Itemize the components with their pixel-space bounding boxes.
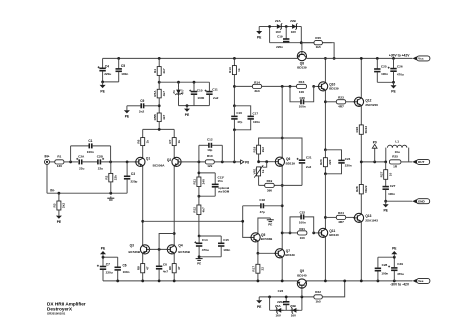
transistor Q1 [135,157,151,167]
svg-text:1k5: 1k5 [316,299,321,303]
node C25 rail [376,57,379,60]
svg-text:R16: R16 [299,80,305,84]
wire R14 to R16 [262,85,297,87]
trimmer R18 [252,145,265,154]
zener Z2B [290,19,299,34]
node Q6 top branch [281,137,284,140]
node P9 tap [373,161,376,164]
svg-text:2k2: 2k2 [261,147,265,152]
svg-text:470u: 470u [202,248,209,252]
capacitor C7 [97,257,113,281]
node VR1 wiper tap [265,160,268,163]
svg-text:47: 47 [145,266,149,270]
capacitor C23 [277,289,289,310]
wire to OUT tag [401,161,412,163]
node C19 top [285,25,288,28]
node C6 rail [116,280,119,283]
svg-text:2k2: 2k2 [62,203,66,208]
node R15 rail [333,57,336,60]
node mirror tie [173,232,176,235]
ground PE under zener network [184,106,190,117]
svg-text:BC546B: BC546B [128,250,140,254]
capacitor C27 [383,184,396,201]
wire R12 to C14 [198,215,200,236]
svg-text:R12: R12 [193,207,197,213]
svg-text:C2A: C2A [78,155,85,159]
svg-text:PE: PE [268,223,272,227]
capacitor C13 branch [199,173,219,196]
capacitor C15 branch [199,236,230,257]
svg-text:22u: 22u [79,166,84,170]
svg-text:via BOM: via BOM [218,189,230,193]
transistor Q5 [250,232,273,242]
svg-text:Q1: Q1 [146,157,150,161]
resistor R5A [153,89,166,98]
svg-text:2u2: 2u2 [306,165,312,169]
node C26 bottom [392,81,395,84]
node R9 rail [173,280,176,283]
svg-text:Z3B: Z3B [290,304,297,308]
svg-text:C2B: C2B [97,155,104,159]
svg-text:Q13: Q13 [365,214,371,218]
capacitor C5 [116,58,129,82]
ground PE under R3 [56,215,62,224]
svg-text:R20: R20 [319,159,323,165]
wire IN+ down to IN- line [46,164,48,193]
wire zener network top [159,81,209,83]
svg-text:BC546B: BC546B [261,237,273,241]
node R20 top [324,148,327,151]
svg-text:16V: 16V [276,30,281,34]
capacitor C2B [97,155,104,171]
capacitor C12 branch [199,138,222,162]
wire Q2 collector down [173,167,175,245]
svg-text:BD139: BD139 [286,161,296,165]
node rail-R13 junction [233,57,236,60]
resistor R11 [193,177,206,187]
wire R16 to Q10 base [314,85,320,87]
wire Q7 base line [258,252,275,254]
capacitor C18 branch [243,198,283,214]
svg-text:C12: C12 [207,138,213,142]
trimmer VR1 [252,165,265,177]
node C22 left [289,232,292,235]
node C23 top [285,296,288,299]
node C16 top [233,104,236,107]
wire Q7 emitter to rail [281,258,283,281]
svg-text:C10: C10 [197,88,203,92]
svg-text:1k: 1k [237,68,241,72]
node Z3 left riser [268,296,271,299]
resistor R7 [168,129,181,145]
svg-text:R19: R19 [267,179,273,183]
svg-text:R28: R28 [355,186,359,192]
svg-text:100: 100 [300,236,305,240]
node VAS column top [281,85,284,88]
svg-text:R13: R13 [228,67,232,73]
svg-text:BD140: BD140 [297,273,307,277]
svg-text:BC556A: BC556A [153,163,166,167]
svg-text:BD139: BD139 [297,66,307,70]
wire R10 to P8 [214,161,240,163]
svg-text:16V: 16V [291,30,296,34]
svg-text:10: 10 [388,173,392,177]
resistor R1 [55,154,64,168]
svg-text:IN-: IN- [50,189,54,193]
capacitor C22 branch [290,211,314,233]
node C28 rail [377,280,380,283]
capacitor C26 [388,58,404,82]
node Z1 top [177,81,180,84]
resistor R9 [168,254,181,281]
svg-text:220: 220 [328,159,332,164]
svg-text:-30V to -42V: -30V to -42V [390,283,410,287]
svg-text:R18: R18 [252,146,256,152]
connector Vcc [413,56,430,61]
resistor R21 [298,227,307,240]
ground PE under C26 [391,82,397,93]
node R27 top [384,161,387,164]
svg-text:C14: C14 [202,238,208,242]
svg-text:BC546B: BC546B [178,250,190,254]
resistor R28 [355,162,368,213]
node R5-C9 junction [158,104,161,107]
resistor R24 [325,211,354,224]
svg-text:1k: 1k [261,169,265,173]
wire R21 line left [282,232,297,234]
svg-text:C8: C8 [163,262,167,266]
node C1 right junction [109,161,112,164]
node R3 top [58,192,61,195]
svg-text:BD139: BD139 [285,253,295,257]
svg-text:47p: 47p [260,210,265,214]
svg-text:4k7: 4k7 [162,114,166,119]
capacitor C2A [76,155,85,171]
node VAS feed tap [141,220,144,223]
resistor R8 [137,254,150,281]
capacitor C14 [194,236,209,257]
node C8 rail [158,280,161,283]
ground PE under C4 [100,82,106,93]
svg-text:C4: C4 [105,64,109,68]
svg-text:C26: C26 [397,64,403,68]
svg-text:C6: C6 [123,263,127,267]
wire R4 to R5A [158,75,160,89]
resistor R22 [314,290,322,304]
wire R15 to rail [322,43,334,59]
wire C2A to C2B [82,161,98,163]
wire C16 column to fb line [233,130,235,162]
wire C28-C29 tops [378,256,394,258]
node R4-R5A junction [158,81,161,84]
svg-text:C19: C19 [277,35,283,39]
capacitor C11 [205,82,219,105]
svg-text:R3: R3 [53,203,57,207]
svg-text:22u: 22u [98,166,103,170]
svg-text:220u: 220u [104,72,111,76]
svg-text:240: 240 [202,179,206,184]
svg-text:C29: C29 [397,262,403,266]
wire Q2 base to network [179,161,205,163]
resistor R3 [53,193,66,215]
wire mirror tie route [159,234,174,250]
node R21 left [281,232,284,235]
svg-text:2SA1943: 2SA1943 [365,218,378,222]
svg-text:1k: 1k [177,140,181,144]
node C18 right [281,204,284,207]
svg-text:16V: 16V [291,314,296,318]
wire C6-C7 tops [103,256,118,258]
svg-text:R1: R1 [57,154,61,158]
node zener net bottom [186,104,189,107]
ground PE under C27 [383,201,389,212]
wire C18 to Q5 base drop [242,206,244,222]
wire C21 branch [301,164,303,186]
svg-text:2n2: 2n2 [139,109,145,113]
ground bar under R2 [107,196,114,200]
svg-text:C24: C24 [345,157,351,161]
resistor R16 [297,80,307,94]
resistor R12 [193,205,206,215]
wire R18 to node [258,154,260,162]
svg-text:1000: 1000 [197,96,204,100]
svg-text:Z1: Z1 [172,90,176,94]
node C14 top junction [198,235,201,238]
wire Q11 collector to rail [324,238,326,281]
resistor R10 [205,154,214,168]
resistor R2 [105,162,118,193]
wire C19 left riser [269,27,271,43]
node mirror base center [158,248,161,251]
ground PE above C29 [391,247,397,258]
svg-text:P9: P9 [373,140,377,144]
svg-text:R6: R6 [137,139,141,143]
svg-text:C1: C1 [88,139,92,143]
svg-text:Vee: Vee [418,279,424,283]
svg-text:R9: R9 [168,266,172,270]
capacitor C17 branch [234,106,260,130]
capacitor C20 branch [290,86,314,108]
wire R1 to C2A [64,161,78,163]
wire zener network bottom [179,105,210,107]
svg-text:R21: R21 [299,227,305,231]
resistor R6 [137,129,150,145]
wire R6 to Q1 [142,146,144,157]
svg-text:4k7: 4k7 [162,68,166,73]
transistor Q12 [353,97,378,107]
wire Z2A-Z2B [284,26,290,28]
wire R7 to Q2 [173,146,175,157]
svg-text:100n: 100n [381,72,388,76]
svg-text:C28: C28 [382,263,388,267]
capacitor C25 [374,58,388,82]
svg-text:R22: R22 [315,290,321,294]
svg-text:100n: 100n [381,271,388,275]
svg-text:220u: 220u [277,300,284,304]
wire VAS column upper [281,86,283,248]
wire Z3B right riser [301,297,303,310]
svg-text:0R22: 0R22 [364,185,368,193]
node R17 rail [257,280,260,283]
zener Z2A [275,19,284,34]
resistor R13 [228,58,241,105]
capacitor C21 [297,155,312,169]
svg-text:Z2B: Z2B [290,19,297,23]
wire Q12 collector to rail [360,58,362,96]
svg-text:R8: R8 [137,266,141,270]
transistor Q7 [274,248,295,258]
wire Q13 collector to rail [360,223,362,281]
wire R22 to rail [322,281,344,297]
svg-text:Q4: Q4 [178,244,182,248]
capacitor C29 [388,257,404,281]
transistor Q9 (series regulator) [297,269,307,289]
capacitor C24 branch [325,150,351,174]
capacitor C1 bypass branch [71,139,111,162]
node R20 bottom [324,172,327,175]
resistor R27 [380,162,393,186]
svg-text:47: 47 [177,266,181,270]
svg-text:R5B: R5B [153,113,157,120]
node Q7 rail [281,280,284,283]
wire +V rail right section [307,57,413,59]
svg-text:C7: C7 [106,263,110,267]
svg-text:C23: C23 [278,289,284,293]
wire Q5 emitter to ground [258,218,270,232]
ground PE left of lower line [256,297,262,309]
label -30V to -42V [390,283,410,287]
wire C25-C26 bottoms [377,81,393,83]
svg-text:R10: R10 [207,154,213,158]
capacitor C4 [98,58,112,82]
wire Q10 collector to rail [324,58,326,81]
svg-text:C9: C9 [140,99,144,103]
transistor Q8 (series regulator) [297,51,307,70]
wire tail tee [143,128,175,130]
svg-text:Q2: Q2 [167,158,171,162]
node Z2A left [268,25,271,28]
svg-text:R7: R7 [168,139,172,143]
svg-text:47p: 47p [237,120,242,124]
transistor Q6 [274,157,295,167]
wire Z2B to corner [299,27,302,43]
wire zener bottom line [270,309,302,311]
wire Q11 emitter up [324,174,326,229]
wire Q11 base line [314,232,320,234]
wire -V rail [103,280,413,282]
capacitor C10 [189,82,204,105]
node tail center [158,128,161,131]
node R24 tap [324,216,327,219]
svg-text:Z3A: Z3A [275,304,282,308]
svg-text:C27: C27 [390,184,396,188]
wire Q5 collector down [257,242,259,253]
wire lower bias line [259,296,314,298]
svg-text:R23: R23 [338,96,344,100]
test point P9 [372,140,377,162]
svg-text:IN+: IN+ [44,154,49,158]
svg-text:4R7: 4R7 [338,104,344,108]
node C27 bottom [384,200,387,203]
node Q5 base tap [241,220,244,223]
svg-text:100n: 100n [253,120,260,124]
svg-text:470u: 470u [397,272,404,276]
wire Q9 base [301,289,303,297]
node R13-R14 junction [233,85,236,88]
node Q6 bottom branch [281,184,284,187]
node Q11 rail [324,280,327,283]
node C29 top [393,256,396,259]
node Q5-Q7-R17 [257,252,260,255]
node C20 left [289,85,292,88]
node C26 rail [392,57,395,60]
wire Z3 left riser [269,297,271,310]
resistor R25 [389,154,401,168]
resistor R23 [325,96,354,109]
node R23 tap [324,100,327,103]
svg-text:GND: GND [418,200,426,204]
node C14 bottom [198,255,201,258]
svg-text:100n: 100n [299,105,306,109]
node Q12 rail [360,57,363,60]
wire to GND tag [386,200,413,202]
svg-text:C20: C20 [299,96,305,100]
node C10 top [193,81,196,84]
svg-text:100n: 100n [87,150,94,154]
svg-text:470u: 470u [397,72,404,76]
wire C14-C15 bottoms [199,256,221,258]
capacitor C3 [124,162,138,193]
svg-text:BD140: BD140 [329,233,339,237]
ground bar under C14 [196,257,203,266]
wire VR1 wiper route [263,162,267,168]
ground PE above C7 [100,247,106,258]
resistor R19 [265,179,275,193]
svg-text:12k: 12k [207,164,212,168]
svg-text:220p: 220p [131,179,138,183]
zener Z3A [275,304,284,318]
node R22 rail [343,280,346,283]
svg-text:R4: R4 [153,69,157,73]
svg-text:4R7: 4R7 [338,220,344,224]
wire C4-C5 bottoms [103,81,119,83]
node Q10 rail [324,57,327,60]
svg-text:C21: C21 [306,155,312,159]
wire Q8 base [301,43,303,50]
svg-text:100: 100 [299,90,304,94]
capacitor C16 [231,106,242,130]
node R11 top [198,161,201,164]
node R21 right [312,232,315,235]
svg-text:Z2A: Z2A [275,19,282,23]
wire R13 to R14 [234,85,252,87]
zener Z3B [290,304,299,318]
wire C19 lower line [270,42,332,44]
svg-text:C22: C22 [300,211,306,215]
svg-text:100n: 100n [123,270,130,274]
resistor R5B [153,113,166,122]
svg-text:C15: C15 [223,238,229,242]
resistor R17 [252,253,265,281]
svg-text:R26: R26 [355,126,359,132]
zener Z1 [172,82,184,105]
svg-text:OUT: OUT [418,160,425,164]
svg-text:P8: P8 [245,160,249,164]
svg-text:R27: R27 [380,171,384,177]
node R2 bottom [109,192,112,195]
label +30V to +42V [389,54,410,58]
resistor R20 [319,150,332,174]
